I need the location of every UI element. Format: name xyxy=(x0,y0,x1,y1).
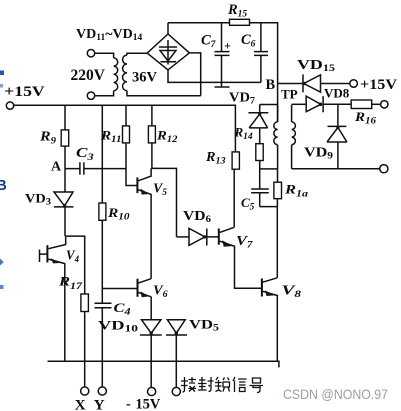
svg-text:R16: R16 xyxy=(354,109,376,127)
resistor R18 xyxy=(276,169,278,278)
wire R17 to terminal X xyxy=(84,312,86,388)
wire bottom bus xyxy=(48,361,279,367)
wire top rail from bridge top to B column xyxy=(168,23,278,122)
wire bridge right vertex to 36V bottom xyxy=(189,53,200,96)
svg-text:B: B xyxy=(0,177,7,194)
wire B node column xyxy=(278,83,303,85)
terminal Y xyxy=(98,387,106,395)
svg-text:220V: 220V xyxy=(71,67,106,84)
terminal blocking signal xyxy=(172,387,180,395)
terminal R16 right xyxy=(381,101,388,108)
svg-text:R17: R17 xyxy=(58,274,84,293)
terminal X xyxy=(81,387,89,395)
transistor V6 xyxy=(137,279,139,297)
diode VD3 xyxy=(54,169,74,237)
svg-text:VD10: VD10 xyxy=(98,318,138,335)
svg-text:B: B xyxy=(266,77,276,93)
svg-text:C5: C5 xyxy=(241,195,255,213)
node A wire and capacitor C3 xyxy=(65,162,126,175)
svg-text:-15V: -15V xyxy=(126,397,161,411)
svg-text:C4: C4 xyxy=(114,300,131,318)
wire TP secondary top to VD8 xyxy=(292,103,307,105)
resistor R16 xyxy=(351,100,372,109)
transformer T secondary winding 36V xyxy=(127,53,201,95)
wire TP secondary bottom xyxy=(292,168,380,170)
wire R14 bottom / C5 column xyxy=(259,161,261,207)
bridge inner diode xyxy=(159,40,177,65)
main +15V rail xyxy=(6,102,13,109)
svg-text:R1a: R1a xyxy=(284,182,309,200)
bridge rectifier VD11-VD14 diamond xyxy=(147,34,189,70)
wire VD6 row xyxy=(177,236,190,238)
terminal +15V right xyxy=(350,80,358,88)
capacitor C6 xyxy=(254,23,268,83)
diode VD8 xyxy=(306,96,351,112)
svg-text:VD9: VD9 xyxy=(304,145,333,162)
svg-text:V7: V7 xyxy=(236,234,254,251)
svg-text:VD3: VD3 xyxy=(25,191,51,208)
svg-text:V5: V5 xyxy=(153,182,167,199)
svg-text:V6: V6 xyxy=(153,284,168,301)
svg-text:CSDN @NONO.97: CSDN @NONO.97 xyxy=(283,386,388,402)
resistor R14 xyxy=(256,144,263,161)
svg-text:TP: TP xyxy=(281,87,298,102)
svg-text:VD11~VD14: VD11~VD14 xyxy=(76,27,142,43)
svg-text:C6: C6 xyxy=(241,32,256,50)
svg-text:R15: R15 xyxy=(227,2,247,20)
resistor R15 xyxy=(230,19,250,25)
svg-text:VD5: VD5 xyxy=(189,317,219,334)
svg-text:VD7: VD7 xyxy=(229,90,255,107)
transformer TP primary winding xyxy=(277,105,279,169)
transistor V8 xyxy=(261,279,263,297)
svg-text:VD8: VD8 xyxy=(324,86,350,101)
resistor R17 xyxy=(81,294,89,312)
svg-text:36V: 36V xyxy=(132,70,158,86)
wire V6 base xyxy=(102,288,136,290)
diode VD6 xyxy=(189,228,219,245)
resistor R10 xyxy=(99,203,106,220)
svg-text:R9: R9 xyxy=(39,130,56,147)
transistor V5 xyxy=(136,177,138,193)
left edge blue fragments xyxy=(0,71,7,290)
diode VD10 xyxy=(140,297,162,388)
svg-text:A: A xyxy=(51,160,62,175)
svg-text:VD6: VD6 xyxy=(183,208,211,225)
diode VD7 xyxy=(248,105,268,144)
svg-text:VD15: VD15 xyxy=(297,58,335,74)
terminal bottom right xyxy=(380,165,388,173)
svg-text:C3: C3 xyxy=(76,145,94,163)
svg-text:R11: R11 xyxy=(100,128,122,146)
svg-text:R12: R12 xyxy=(156,128,178,146)
svg-text:R10: R10 xyxy=(107,205,130,223)
terminal -15V xyxy=(148,387,156,395)
svg-text:R13: R13 xyxy=(205,149,226,167)
svg-text:Y: Y xyxy=(94,398,105,411)
diode VD15 xyxy=(303,74,350,92)
wire V5 collector row to VD6 column xyxy=(151,168,176,237)
svg-text:C7: C7 xyxy=(201,33,217,51)
diode VD9 xyxy=(327,104,347,168)
resistor R13 xyxy=(233,169,235,227)
capacitor C5 xyxy=(251,189,269,193)
ground bar below C7 xyxy=(215,82,230,87)
resistor R9 xyxy=(64,105,66,168)
transistor V4 xyxy=(46,245,48,262)
wire DC- bus from bridge bottom to C6 xyxy=(168,70,261,83)
svg-text:V8: V8 xyxy=(282,284,302,301)
resistor R11 xyxy=(126,105,137,185)
resistor R12 xyxy=(151,105,153,168)
wire V4 collector node to R17 xyxy=(66,236,85,294)
svg-text:V4: V4 xyxy=(66,249,79,266)
svg-text:X: X xyxy=(75,398,86,411)
transistor V7 xyxy=(218,229,220,245)
wire VD7 top xyxy=(260,104,278,106)
transformer T primary winding 220V xyxy=(95,53,114,95)
label blocking signal chinese xyxy=(181,377,263,393)
capacitor C7 xyxy=(215,23,230,83)
svg-text:+15V: +15V xyxy=(360,77,397,93)
transformer TP secondary winding xyxy=(291,105,293,169)
capacitor C4 xyxy=(95,303,112,308)
svg-text:+: + xyxy=(224,39,231,53)
diode VD5 xyxy=(166,320,187,388)
wire C5/R18 jogs xyxy=(260,169,278,207)
wire R10 column from rail xyxy=(101,105,103,387)
transformer T primary terminal top xyxy=(87,50,94,57)
svg-text:+15V: +15V xyxy=(4,84,45,100)
transformer T primary terminal bottom xyxy=(87,92,94,99)
